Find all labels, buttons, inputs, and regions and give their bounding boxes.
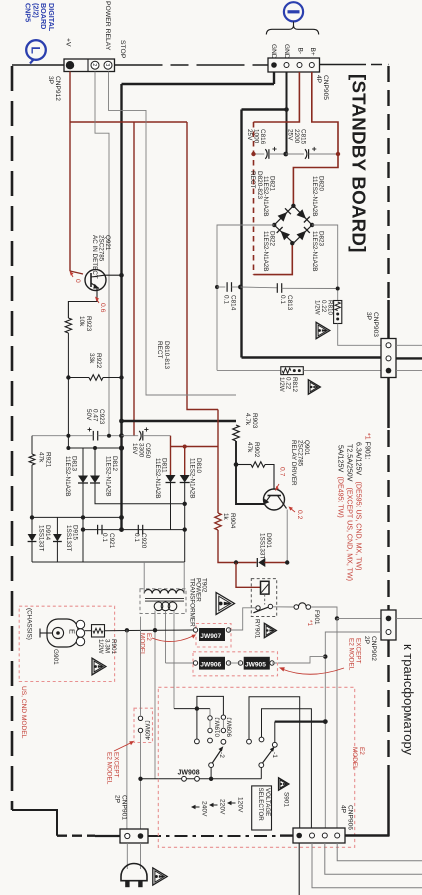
jumper JW908 (open) xyxy=(182,776,187,781)
wire y=708.6 from T902 primary xyxy=(174,708,210,710)
svg-text:0.1: 0.1 xyxy=(101,533,108,542)
svg-text:4P: 4P xyxy=(315,75,322,84)
svg-text:E2 MODEL: E2 MODEL xyxy=(348,638,355,671)
node GND/C815/C816 junction xyxy=(283,152,288,157)
node GND/C813-C814 junction xyxy=(238,285,243,290)
svg-text:0.1: 0.1 xyxy=(223,295,230,304)
wire maroon rail y=421 extension xyxy=(218,420,236,422)
svg-text:11ES2-N1A2B: 11ES2-N1A2B xyxy=(154,458,161,499)
svg-text:F901:: F901: xyxy=(364,442,372,460)
svg-text:[STANDBY BOARD]: [STANDBY BOARD] xyxy=(349,74,370,253)
pin 1 of CNP906 xyxy=(296,833,302,839)
node rail517/x83 xyxy=(81,515,85,519)
svg-text:11ES2-N1A2B: 11ES2-N1A2B xyxy=(311,231,318,272)
wire red branch x=187 down xyxy=(187,122,218,410)
switch S901 warning triangle xyxy=(279,778,289,790)
svg-text:G901: G901 xyxy=(52,649,59,665)
resistor R902 47k xyxy=(236,464,251,466)
svg-text:CNP5: CNP5 xyxy=(24,3,33,22)
red arrow EXCEPT-E2 to JW905 box xyxy=(282,668,344,674)
svg-text:RECT: RECT xyxy=(249,171,256,188)
wire D811 tail to rail529 xyxy=(170,483,172,530)
svg-text:US, CND MODEL: US, CND MODEL xyxy=(20,686,27,739)
resistor R903 4.7k xyxy=(233,425,239,441)
svg-text:0.7: 0.7 xyxy=(279,467,286,477)
switch arm -1 xyxy=(259,763,264,768)
svg-text:220V: 220V xyxy=(219,799,226,815)
wire R810 to CNP903 pin1 xyxy=(338,324,381,346)
diode D812 rectifier xyxy=(94,448,96,476)
wire -2 pivot down to JW908 line xyxy=(210,768,212,779)
wire T902 secondary right up xyxy=(183,562,185,594)
wire mains line left of CNP901 (thick) xyxy=(95,835,120,837)
wire JW906 line xyxy=(166,662,195,664)
transistor Q921 2SC2785 AC IN DETECT xyxy=(85,270,106,291)
node relay coil feed junction xyxy=(234,560,238,564)
warning triangle at R810 xyxy=(316,322,330,338)
wire rail y=529.6 xyxy=(83,529,185,531)
wire maroon C950+ down to rect diode anodes xyxy=(170,436,172,447)
pin 1 of CNP902 xyxy=(386,616,392,622)
wire JW908 line xyxy=(141,778,262,780)
wire Q921 collector to GND rail xyxy=(105,274,122,276)
wire GND thick from CNP905 pin1 left xyxy=(273,72,275,84)
board outline border, top edge right segment xyxy=(319,64,366,66)
svg-text:0.2: 0.2 xyxy=(296,510,303,520)
wire CNP906 pin3 down-right xyxy=(325,843,422,874)
svg-text:-1: -1 xyxy=(271,752,278,758)
diode D820 (bridge top-right) xyxy=(297,209,307,219)
wire CNP903 pin3 to transformer (right edge) xyxy=(396,370,422,372)
contact circle left-1 xyxy=(195,739,200,744)
contact circle right-2 xyxy=(259,737,264,742)
pin 1 of CNP903 xyxy=(386,343,391,348)
earth symbol G901 xyxy=(47,619,78,647)
svg-text:0.6: 0.6 xyxy=(99,303,106,313)
contact circle below JW909 xyxy=(221,739,226,744)
red dashed box around JW907 xyxy=(196,624,231,648)
resistor R904 1k (maroon) xyxy=(215,513,221,530)
pin 3 of CNP912 xyxy=(104,61,112,69)
wire contact 2 to CNP906 pin2 xyxy=(262,709,312,828)
wire maroon down to D811 xyxy=(170,447,172,476)
pin 2 of CNP901 xyxy=(138,833,144,839)
svg-text:AC IN DETECT: AC IN DETECT xyxy=(91,235,98,279)
wire F901 to CNP902 pin1 xyxy=(311,607,337,618)
node C923 left junction xyxy=(66,434,70,438)
svg-text:к трансформатору: к трансформатору xyxy=(401,644,416,756)
svg-text:25V: 25V xyxy=(286,129,293,141)
wire +V branch rail y=122 xyxy=(70,121,187,123)
diode D811 rectifier xyxy=(166,475,176,483)
wire AC-left rail down to R812 line xyxy=(217,369,281,371)
svg-text:E2 MODEL: E2 MODEL xyxy=(106,752,113,785)
red dashed box around JW906/JW905 xyxy=(193,652,278,676)
node C950 left junction xyxy=(119,433,124,438)
wire mains right of CNP906 (thick) xyxy=(345,834,390,837)
svg-text:909WJ: 909WJ xyxy=(227,717,234,737)
node rail448/x95 xyxy=(93,446,97,450)
svg-text:EXCEPT: EXCEPT xyxy=(355,638,362,664)
connector CNP905 4P xyxy=(268,58,320,72)
svg-text:JW907: JW907 xyxy=(200,633,221,640)
svg-text:019WJ: 019WJ xyxy=(215,717,222,737)
transformer T902 secondary winding xyxy=(144,590,184,594)
svg-text:1SS133T: 1SS133T xyxy=(65,525,72,551)
capacitor C813 0.1 xyxy=(241,286,278,289)
wire GND thick vertical rail x=121.5 xyxy=(120,84,122,528)
wire maroon coil feed xyxy=(236,563,261,588)
wire T902 primary left to CNP901 pin2 through JW904 xyxy=(140,617,142,717)
wire GND thick y=109.5 xyxy=(242,108,287,110)
wire thick rail y=421 xyxy=(122,420,237,422)
wire CNP906 pin1 down to edge xyxy=(298,843,300,895)
connector symbol L (blue circle) xyxy=(26,40,46,60)
svg-text:JW906: JW906 xyxy=(200,662,221,669)
pin 2 (GND) of CNP905 xyxy=(284,63,289,68)
svg-text:T2.5A/250V: T2.5A/250V xyxy=(346,444,354,482)
diode D813 rectifier xyxy=(82,448,84,476)
capacitor C921 0.1 xyxy=(97,525,99,535)
svg-text:(DE495: TW): (DE495: TW) xyxy=(337,477,345,518)
wire Q921 emitter down-left xyxy=(68,288,97,319)
node CNP902 pin1 junction xyxy=(335,616,339,620)
svg-text:1SS133T: 1SS133T xyxy=(37,525,44,551)
contact circle below JW910 xyxy=(208,738,213,743)
pin 1 (GND) of CNP905 xyxy=(271,62,277,68)
pin 3 (B-) of CNP905 xyxy=(297,63,302,68)
switch arm -2 xyxy=(209,763,214,768)
diode D823 (bridge bottom-right) xyxy=(297,231,307,241)
wire red branch x=134 down to C950 line xyxy=(133,122,135,436)
warning triangle at R812 xyxy=(308,380,320,394)
node C815/B+ junction xyxy=(336,152,340,156)
wire switch group right: contact 1 to CNP906 pin1 xyxy=(249,697,300,828)
red dashed box US CND MODEL (chassis) xyxy=(19,606,114,681)
wire B- to bridge minus node xyxy=(254,243,293,274)
svg-text:47k: 47k xyxy=(246,442,253,453)
bridge rectifier diamond wires xyxy=(274,206,312,243)
svg-text:0.1: 0.1 xyxy=(279,295,286,304)
node bridge top xyxy=(291,204,295,208)
wire CNP906 pin4 down-right xyxy=(337,843,422,861)
wire B- (dark red) from CNP905 pin3 xyxy=(254,72,300,122)
warning triangle at plug xyxy=(153,868,167,885)
wire B+ down to bridge plus node xyxy=(293,154,338,206)
wire GND thick y=357.5 to CNP903 pin2 xyxy=(242,356,382,358)
wire rail y=517.4 xyxy=(32,516,122,518)
diode D822 (bridge bottom-left) xyxy=(281,231,291,241)
pin 2 of CNP903 xyxy=(386,356,391,361)
contact circle right-1 xyxy=(247,739,252,744)
svg-text:10k: 10k xyxy=(78,316,85,327)
svg-text:5A/125V: 5A/125V xyxy=(337,445,345,472)
svg-text:TRANSFORMER: TRANSFORMER xyxy=(189,578,196,627)
diode D901 1SS133T xyxy=(258,558,265,567)
node jumper line junction xyxy=(323,654,327,658)
svg-text:*1: *1 xyxy=(306,620,313,626)
capacitor C814 0.1 xyxy=(217,286,225,288)
capacitor C815 2200uF 25V xyxy=(286,153,304,155)
svg-text:25V: 25V xyxy=(246,129,253,141)
node GND junction xyxy=(284,107,289,112)
svg-text:1k: 1k xyxy=(222,513,229,521)
wire GND thick vertical x=241.5 xyxy=(240,110,242,358)
svg-text:*1: *1 xyxy=(364,433,372,440)
svg-text:47k: 47k xyxy=(38,452,45,463)
resistor R901 3.3M 1/2W (boxed) xyxy=(85,630,92,632)
svg-text:(DE595: US, CND, MX, TW): (DE595: US, CND, MX, TW) xyxy=(355,482,363,571)
wire maroon down to D810 xyxy=(184,447,186,476)
resistor R810 0.22 1/2W (fusible) xyxy=(334,301,342,324)
node R922 right on GND rail xyxy=(119,375,123,379)
wire x=127 down to CNP901 pin1 xyxy=(126,630,128,829)
wire T902 primary leads down xyxy=(154,611,156,780)
node bridge left xyxy=(272,223,276,227)
relay RY901 coil symbol xyxy=(261,581,270,594)
svg-text:1/2W: 1/2W xyxy=(97,639,104,654)
svg-text:50V: 50V xyxy=(85,409,92,421)
transformer T902 dashed box xyxy=(140,589,186,614)
wire GND center joint down to C816/C815 xyxy=(286,110,288,155)
svg-text:11ES2-N1A2B: 11ES2-N1A2B xyxy=(64,456,71,497)
svg-text:EXCEPT: EXCEPT xyxy=(113,752,120,778)
svg-text:B-: B- xyxy=(297,48,304,55)
node D810 anode xyxy=(183,445,187,449)
board outline border, top edge left segment xyxy=(12,64,64,66)
wire CNP902 pin1 right to edge xyxy=(396,617,422,619)
wire bridge right AC to x=337.7 rail xyxy=(312,225,338,301)
warning triangle at R901 xyxy=(92,658,106,675)
diode D914 1SS133T xyxy=(31,517,33,534)
svg-text:3P: 3P xyxy=(365,312,372,321)
warning triangle at RY901 xyxy=(264,623,276,637)
wire x83 down to rail562 xyxy=(82,483,84,562)
pin 1 of CNP901 xyxy=(125,833,130,838)
relay RY901 dashed box xyxy=(251,579,276,617)
svg-text:(EXCEPT US, CND, MX, TW): (EXCEPT US, CND, MX, TW) xyxy=(346,488,354,582)
board outline border, top edge middle (dash pattern) xyxy=(115,64,269,66)
svg-text:0.1: 0.1 xyxy=(133,533,140,542)
node bridge bottom xyxy=(290,241,294,245)
svg-text:1/2W: 1/2W xyxy=(278,377,285,392)
power switch symbol I (blue circle) xyxy=(284,2,303,21)
wire -1 pivot to JW908 line xyxy=(260,768,262,779)
node rail529/x184.7 xyxy=(183,527,187,531)
board outline border, bottom-left corner xyxy=(12,810,57,836)
node pivot/JW908 line xyxy=(209,777,213,781)
svg-text:B+: B+ xyxy=(309,48,316,56)
svg-text:6.3A/125V: 6.3A/125V xyxy=(355,442,363,475)
transformer T902 core lines xyxy=(145,598,184,600)
jumper JW905 xyxy=(238,661,242,665)
svg-text:SELECTOR: SELECTOR xyxy=(257,788,264,822)
resistor R812 0.22 1/2W (fusible) xyxy=(281,367,304,375)
connector CNP912 3P xyxy=(64,59,115,72)
node collector/relay junction xyxy=(285,560,289,564)
node top rail left xyxy=(119,419,124,424)
board outline border, right edge (dashed heavy) xyxy=(387,66,389,300)
capacitor C816 1000uF 25V xyxy=(254,153,265,155)
pin 3 of CNP906 xyxy=(322,833,327,838)
node rail448/x68.4 xyxy=(66,446,70,450)
jumper JW904 (red dashed box) xyxy=(134,708,153,742)
svg-text:0: 0 xyxy=(74,279,81,283)
node bridge right xyxy=(310,223,314,227)
wire JW905 to CNP902 pin2 net xyxy=(272,657,325,663)
svg-text:33k: 33k xyxy=(88,353,95,364)
connector CNP903 3P xyxy=(381,339,396,378)
node rail517/x121.5 xyxy=(119,515,124,520)
wire CNP902 pin2 to jumper net xyxy=(325,632,381,828)
wire R923 to R922 node xyxy=(67,333,69,436)
pin 2 of CNP902 xyxy=(386,630,391,635)
svg-text:RELAY DRIVER: RELAY DRIVER xyxy=(290,440,297,486)
svg-text:11ES2-N1A2B: 11ES2-N1A2B xyxy=(311,176,318,217)
wire rail y=448 xyxy=(68,447,121,449)
resistor R923 10k xyxy=(65,318,71,333)
svg-text:JW905: JW905 xyxy=(245,662,266,669)
pin 4 of CNP906 xyxy=(335,833,340,838)
node JW908-line/x140.5 junction xyxy=(138,777,142,781)
capacitor C923 0.47 50V xyxy=(92,431,94,441)
wire switch group left: L-shape xyxy=(197,696,224,739)
svg-text:RECT: RECT xyxy=(156,341,163,358)
node R922 left xyxy=(66,375,70,379)
wire D901 to collector node xyxy=(265,562,288,564)
wire relay contact to fuse xyxy=(273,606,294,608)
svg-text:S901: S901 xyxy=(283,792,290,807)
diode D810 rectifier xyxy=(180,475,190,483)
jumper JW906 xyxy=(193,661,197,665)
connector CNP906 4P xyxy=(293,828,345,843)
transistor Q901 2SC2785 RELAY DRIVER xyxy=(264,489,285,510)
transformer T902 primary winding (loops) xyxy=(154,602,163,611)
board outline border, left edge (dashed) xyxy=(11,66,14,810)
wire from CNP912 pin2 down xyxy=(95,72,109,436)
relay contact circles and arm xyxy=(256,606,260,610)
node x196.9/y708.6 xyxy=(195,706,199,710)
node collector junction on x=121.5 xyxy=(119,273,124,278)
svg-text:2P: 2P xyxy=(363,636,370,645)
wire +V (dark red) from CNP912 pin1 down xyxy=(69,72,71,272)
svg-text:3P: 3P xyxy=(47,76,54,85)
svg-text:MODEL: MODEL xyxy=(351,747,358,770)
svg-text:1/2W: 1/2W xyxy=(313,300,320,315)
wire from CNP912 pin3 down xyxy=(109,72,237,396)
capacitor C920 0.1 xyxy=(137,525,139,535)
svg-text:2P: 2P xyxy=(114,795,121,804)
svg-text:11ES2-N1A2B: 11ES2-N1A2B xyxy=(104,456,111,497)
wire R901 to JW907 line xyxy=(105,629,195,632)
resistor R922 33k xyxy=(68,377,89,379)
wire B- dashed vertical xyxy=(253,122,255,275)
wire maroon R904 to D901 line xyxy=(218,530,257,563)
wire Q921 base from +V xyxy=(70,271,83,274)
svg-text:4.7k: 4.7k xyxy=(244,413,251,426)
wire Q901 collector down xyxy=(286,510,288,563)
svg-text:2: 2 xyxy=(91,63,97,66)
node D810/lower rail xyxy=(183,502,187,506)
pin 2 of CNP912 xyxy=(91,61,99,69)
node T902 lead on JW907 line xyxy=(153,628,157,632)
svg-text:POWER RELAY: POWER RELAY xyxy=(104,1,111,51)
connector CNP902 2P xyxy=(381,610,396,640)
wire bridge left AC to x=217 rail xyxy=(217,225,274,370)
svg-text:VOLTAGE: VOLTAGE xyxy=(264,788,271,816)
brace from power symbol over CNP905 pins xyxy=(266,22,318,35)
svg-text:F901: F901 xyxy=(313,610,320,625)
pin 4 (B+) of CNP905 xyxy=(309,63,314,68)
node AC-right / R810 junction xyxy=(336,287,340,291)
wire T902 secondary left up xyxy=(143,562,145,594)
diode D915 1SS133T xyxy=(56,517,58,534)
svg-text:409WJ: 409WJ xyxy=(145,720,152,740)
svg-text:4P: 4P xyxy=(340,805,347,814)
wire R812 to CNP903 pin3 xyxy=(303,369,381,371)
pin 3 of CNP903 xyxy=(386,368,392,374)
contact circle right-3 xyxy=(272,742,277,747)
svg-text:STOP: STOP xyxy=(119,40,126,59)
warning triangle at T902 xyxy=(216,593,234,615)
diode D821 (bridge top-left) xyxy=(278,212,288,222)
jumper JW909 xyxy=(221,715,225,719)
jumper JW907 xyxy=(193,628,197,632)
red arrow E2 MODEL to JW907 xyxy=(152,636,193,642)
node R902/R903 junction xyxy=(234,462,239,467)
svg-text:L: L xyxy=(29,47,43,54)
connector CNP901 2P xyxy=(120,829,148,843)
wire B+ (dark red) from CNP905 pin4 xyxy=(312,72,338,154)
fuse F901 xyxy=(294,605,299,610)
mains plug symbol xyxy=(121,864,147,881)
node rail529/x83 xyxy=(81,527,85,531)
wire CNP906 pin2 down-right xyxy=(312,843,422,888)
label VOLTAGE SELECTOR (boxed) xyxy=(252,786,272,830)
svg-text:GND: GND xyxy=(283,44,290,59)
svg-text:+V: +V xyxy=(65,38,72,47)
svg-text:1SS133T: 1SS133T xyxy=(258,533,265,559)
capacitor C950 3300 16V (electrolytic) xyxy=(122,435,139,437)
node C816/B- junction xyxy=(251,152,255,156)
wire maroon anode rail y=446.5 xyxy=(171,446,219,448)
node x127 junction on R901 line xyxy=(125,628,129,632)
svg-text:JW908: JW908 xyxy=(178,770,200,777)
wire CNP901 pins down to plug xyxy=(126,843,128,869)
node x325.3/y721.6 xyxy=(323,719,328,724)
relay mechanical link (dashed) xyxy=(264,594,266,604)
svg-text:240V: 240V xyxy=(201,801,208,817)
wire CNP903 pin1 to transformer (right edge) xyxy=(396,344,422,346)
wire CNP902-pin1 net down to CNP906 pin4 xyxy=(336,618,338,828)
wire GND from CNP905 pin2 down xyxy=(286,72,288,110)
node rail517/x32 xyxy=(30,515,34,519)
pin 2 of CNP906 xyxy=(310,833,315,838)
svg-text:16V: 16V xyxy=(131,443,138,455)
svg-text:RY901: RY901 xyxy=(254,619,261,639)
svg-text:11ES2-N1A2B: 11ES2-N1A2B xyxy=(262,231,269,272)
node x109 junction xyxy=(107,434,111,438)
svg-text:11ES2-N1A2B: 11ES2-N1A2B xyxy=(188,458,195,499)
svg-text:(CHASSIS): (CHASSIS) xyxy=(26,608,33,640)
wire maroon x=218 down through R904 xyxy=(217,410,219,514)
node rail448/x121.5 (thick) xyxy=(119,445,124,450)
svg-text:GND: GND xyxy=(270,44,277,59)
svg-text:-2: -2 xyxy=(218,752,225,758)
node AC-left / C814 junction xyxy=(215,285,219,289)
wire rail y=562 xyxy=(32,561,185,563)
pin 1 (+V) of CNP912 xyxy=(66,61,74,69)
